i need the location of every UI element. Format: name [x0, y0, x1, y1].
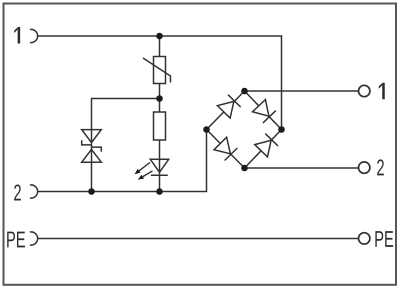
- output terminal circle 2 (right): [359, 162, 370, 173]
- LED V1 triangle: [150, 159, 168, 172]
- output terminal circle 1 (right): [359, 85, 370, 96]
- label 1 (left input): [14, 27, 20, 44]
- label PE (left): [7, 232, 25, 248]
- bridge edge wire L-B: [207, 130, 245, 169]
- LED V1 cathode bar: [151, 174, 168, 176]
- label 2 (left input): [14, 184, 21, 200]
- suppressor diode TVS z-bar left: [82, 140, 92, 145]
- terminal socket PE (left): [30, 232, 38, 245]
- terminal socket 1 (left): [30, 29, 38, 42]
- suppressor diode TVS lower triangle: [82, 149, 102, 162]
- LED arrow 2 head: [138, 175, 144, 180]
- wire: node A branch to suppressor and down to net 2: [92, 99, 160, 192]
- junction dot TVS/net2: [88, 188, 95, 195]
- bridge edge wire B-R: [245, 130, 282, 169]
- bridge right node dot: [278, 126, 285, 133]
- varistor RU1 body: [154, 57, 166, 84]
- label 2 (right output): [377, 159, 384, 175]
- bridge left node dot: [203, 126, 210, 133]
- LED V1 arrow 1: [138, 162, 150, 171]
- bridge diode D1 (left-top edge): [217, 101, 234, 118]
- bridge diode D4 (bottom-right edge): [255, 140, 271, 157]
- wire: PE through line: [37, 238, 358, 240]
- LED V1 arrow 2: [142, 171, 153, 177]
- wire: bridge top node to output terminal 1: [245, 90, 359, 92]
- bridge edge wire T-R: [245, 91, 282, 130]
- label 1 (right output): [379, 83, 385, 100]
- wire net2: input 2 across to bridge left node: [37, 130, 206, 192]
- suppressor diode TVS upper triangle: [82, 130, 102, 143]
- junction dot net1/varistor: [156, 33, 163, 40]
- suppressor diode TVS z-bar right: [92, 147, 102, 152]
- bridge bottom node dot: [241, 165, 248, 172]
- wire: bridge bottom node to output terminal 2: [245, 167, 360, 169]
- bridge diode D2 (top-right edge): [253, 100, 269, 117]
- wire net1: input 1 across top and down to bridge right node: [37, 36, 281, 130]
- bridge top node dot: [241, 88, 248, 95]
- bridge diode D3 (left-bottom edge): [214, 137, 230, 154]
- junction dot node A: [156, 95, 163, 102]
- bridge edge wire L-T: [207, 91, 245, 130]
- junction dot LED/net2: [156, 188, 163, 195]
- terminal socket 2 (left): [30, 185, 38, 198]
- resistor R1: [154, 112, 166, 140]
- wire: varistor branch vertical (net1 junction down to net2): [159, 36, 161, 192]
- LED arrow 1 head: [135, 169, 141, 174]
- varistor RU1 strike line: [143, 58, 171, 83]
- PE terminal circle (right): [359, 233, 370, 244]
- label PE (right): [375, 231, 393, 247]
